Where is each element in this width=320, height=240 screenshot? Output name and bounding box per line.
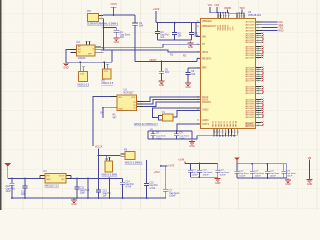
P1 top pins [80, 62, 85, 71]
svg-text:ADIO4/PC: ADIO4/PC [245, 116, 255, 119]
svg-text:4: 4 [235, 131, 236, 133]
U1 ref label [248, 11, 262, 17]
power label VDD2 top [214, 4, 219, 7]
svg-text:RXD: RXD [278, 29, 283, 32]
C4 value label [178, 32, 183, 38]
svg-text:9: 9 [221, 16, 222, 18]
wire bottom rail to gnd [192, 136, 206, 139]
capacitor C23 [281, 164, 286, 178]
svg-text:104: 104 [191, 73, 196, 76]
C20 value label [239, 171, 249, 178]
capacitor C5 [159, 61, 164, 79]
svg-text:GND: GND [215, 182, 221, 185]
svg-text:2: 2 [242, 16, 243, 18]
svg-text:4.7uF: 4.7uF [125, 187, 131, 189]
capacitor C12 [74, 178, 79, 198]
svg-text:VD2: VD2 [214, 4, 219, 7]
C10 value label [6, 186, 16, 193]
svg-text:9: 9 [226, 16, 227, 18]
svg-text:TP: TP [202, 44, 205, 46]
U1 left pin numbers [197, 21, 199, 126]
junction U3 gnd [102, 107, 104, 109]
wire top harness A [210, 12, 229, 13]
capacitor C21 [250, 163, 255, 179]
power flag group2 [234, 158, 239, 164]
power label VCCA [95, 145, 103, 179]
wire gnd bus y62.5 [66, 50, 112, 62]
wire to C1 [104, 26, 117, 28]
svg-text:GND: GND [159, 84, 165, 87]
Y1 link label [134, 123, 158, 126]
wire P3 pin2 down [103, 18, 105, 50]
svg-text:40: 40 [197, 102, 199, 104]
svg-text:TDO: TDO [239, 7, 244, 10]
power label +3V3 right [168, 164, 175, 168]
svg-text:ADIO5/PC: ADIO5/PC [245, 92, 255, 95]
svg-text:100nF: 100nF [239, 176, 246, 178]
power label +3V3 mid [154, 170, 161, 174]
U4 part label [45, 185, 60, 188]
capacitor C19 [215, 164, 220, 178]
U1 bottom pin numbers [215, 131, 239, 133]
U3 bottom net labels [113, 115, 118, 120]
regulator U4 [43, 170, 66, 183]
U3 ref label [124, 89, 135, 95]
U1 top pin names [217, 24, 234, 30]
svg-text:GND: GND [189, 145, 195, 148]
wire down to NRST net [134, 15, 136, 61]
svg-text:VB: VB [308, 156, 312, 160]
wire U3 GND [103, 108, 110, 117]
junction VCCA [98, 155, 100, 157]
svg-text:4: 4 [226, 131, 227, 133]
capacitor C4 [172, 23, 177, 40]
svg-text:4: 4 [220, 131, 221, 133]
svg-text:GND: GND [46, 179, 51, 181]
capacitor C8 [151, 131, 156, 139]
svg-text:43: 43 [197, 124, 199, 126]
wire SSCS [143, 97, 200, 102]
svg-text:100nF: 100nF [203, 175, 210, 177]
U1 bottom pin stubs [214, 129, 237, 133]
U1 top pin numbers [219, 16, 246, 18]
C21 value label [255, 171, 265, 178]
C15 value label [149, 183, 158, 190]
svg-text:TAKT5: TAKT5 [220, 120, 223, 127]
junction NRST/C5 [161, 61, 163, 63]
ground right tie [307, 178, 313, 186]
wire right tie [309, 161, 311, 178]
svg-text:1.8V: 1.8V [80, 74, 85, 76]
U3 right pin stubs [137, 102, 143, 107]
Y1 wires [153, 108, 201, 120]
capacitor C1 [113, 27, 119, 36]
svg-text:VIN: VIN [118, 97, 122, 99]
svg-text:4K7: 4K7 [113, 117, 118, 119]
svg-text:34: 34 [197, 44, 199, 46]
svg-text:100nF: 100nF [169, 196, 176, 198]
svg-text:GND: GND [118, 109, 123, 111]
C12 value label [80, 187, 90, 194]
wire 3v3 right [160, 165, 167, 167]
svg-text:ADIO8/PC: ADIO8/PC [245, 41, 255, 44]
wire U2 pin7 down [101, 51, 104, 53]
capacitor C9 [174, 130, 179, 139]
svg-text:10uF: 10uF [80, 193, 86, 195]
svg-text:33: 33 [197, 36, 199, 38]
svg-text:KB2X1-3.5MM: KB2X1-3.5MM [102, 174, 118, 177]
svg-text:2: 2 [244, 16, 245, 18]
C13 value label [103, 190, 112, 197]
capacitor C18 [197, 163, 202, 179]
svg-text:4: 4 [229, 131, 230, 133]
U2 right pin stubs [96, 47, 102, 52]
crystal Y1 [162, 111, 174, 122]
U1 bottom rail [206, 133, 238, 136]
svg-text:1uF: 1uF [103, 196, 108, 198]
power label VB right [308, 156, 312, 162]
svg-text:+3V3: +3V3 [153, 7, 160, 11]
U1 right pin numbers [257, 22, 259, 127]
junction at VCC5 drop [113, 14, 115, 16]
svg-text:42: 42 [197, 120, 199, 122]
capacitor C15 [144, 170, 149, 198]
svg-text:GND: GND [307, 183, 313, 186]
svg-text:2: 2 [238, 16, 239, 18]
capacitor C6 [185, 71, 190, 82]
wire top harness B [228, 13, 245, 14]
svg-text:100nF: 100nF [270, 176, 277, 178]
svg-text:TAKT9: TAKT9 [232, 120, 235, 127]
svg-text:VBBGEN: VBBGEN [202, 21, 212, 23]
svg-text:+1V8: +1V8 [178, 158, 185, 162]
svg-text:NCP1117: NCP1117 [124, 91, 135, 94]
svg-text:100nF: 100nF [220, 175, 227, 177]
C8 value label [150, 129, 166, 140]
svg-text:VO1: VO1 [131, 97, 136, 99]
U2 part label [78, 57, 86, 60]
IC U3 [117, 95, 138, 112]
svg-text:NRST: NRST [150, 58, 158, 62]
rail top mid [71, 177, 123, 179]
svg-text:KB2X1-3.5: KB2X1-3.5 [78, 84, 90, 87]
C17 value label [192, 170, 202, 177]
P2 top pins [104, 62, 109, 68]
wire VCCA to P5 [99, 155, 121, 157]
svg-text:ADIO2/PC: ADIO2/PC [245, 26, 255, 29]
blue gnd mark below U3 [100, 112, 104, 119]
svg-text:TAKT8: TAKT8 [229, 120, 232, 127]
svg-text:VDD1: VDD1 [202, 52, 209, 54]
P5 pin stubs [120, 154, 124, 157]
U4 left stub [40, 176, 45, 179]
group1 rails [185, 164, 218, 178]
ground left of U2 [63, 62, 69, 70]
P6 link label [102, 174, 118, 177]
svg-text:+3V3: +3V3 [168, 164, 175, 168]
test point P1 [78, 71, 88, 82]
svg-text:35: 35 [197, 52, 199, 54]
svg-text:NC: NC [61, 179, 65, 181]
svg-text:GND2: GND2 [202, 110, 209, 112]
capacitor C17 [188, 164, 193, 178]
svg-text:104: 104 [139, 25, 144, 28]
svg-text:4: 4 [232, 131, 233, 133]
svg-text:VB1: VB1 [202, 36, 207, 38]
C18 value label [203, 170, 213, 177]
connector P5 [124, 149, 136, 160]
U4 pin names [46, 175, 65, 181]
wire U2 pin1 to gnd [66, 50, 71, 62]
svg-text:GND: GND [188, 46, 194, 49]
svg-text:ADIO4/PC: ADIO4/PC [245, 56, 255, 59]
junction rail [76, 178, 110, 180]
capacitor C17b [163, 189, 168, 198]
svg-text:GND: GND [71, 203, 77, 206]
svg-text:TAKT3: TAKT3 [214, 120, 217, 127]
svg-text:100nF: 100nF [192, 175, 199, 177]
power flag VIN [5, 163, 11, 178]
svg-text:+3V3: +3V3 [154, 170, 161, 174]
U1 left pin names [202, 21, 217, 126]
svg-text:ADIO5/PC: ADIO5/PC [245, 121, 255, 124]
svg-text:15pF: 15pF [180, 138, 186, 140]
svg-text:GND: GND [114, 41, 120, 44]
U1 right wires with net labels [256, 21, 284, 33]
svg-text:ADIO1/PC: ADIO1/PC [245, 24, 255, 27]
svg-text:KB2X1-3.5MM-2: KB2X1-3.5MM-2 [125, 162, 143, 165]
junction gnd rail [11, 197, 147, 199]
svg-text:9: 9 [224, 16, 225, 18]
U3 left pin stubs [110, 97, 116, 108]
svg-text:ADIO0/PC: ADIO0/PC [245, 21, 255, 24]
P1 link label [78, 84, 90, 87]
svg-text:JN5148-001: JN5148-001 [248, 14, 262, 17]
junction C4 [191, 22, 193, 24]
svg-text:ADIO1/PC: ADIO1/PC [245, 80, 255, 83]
wire U2 SDA to U1 [101, 44, 200, 47]
U1 powergnd pin names [245, 123, 255, 128]
wire to U1 pin [195, 22, 200, 37]
svg-text:4: 4 [238, 131, 239, 133]
svg-text:TAKT2: TAKT2 [212, 120, 215, 127]
svg-text:4: 4 [218, 131, 219, 133]
connector P6 [105, 158, 114, 173]
U1 right nc pins [256, 33, 263, 126]
wire U3 VIN [93, 97, 110, 147]
svg-text:KB2X1-3.5: KB2X1-3.5 [102, 82, 114, 85]
connector P3 [87, 9, 99, 22]
svg-text:36: 36 [197, 58, 199, 60]
svg-text:9: 9 [229, 16, 230, 18]
P2 link label [102, 79, 114, 85]
wire cap leg a [87, 178, 89, 198]
svg-text:GA: GA [100, 112, 104, 115]
svg-text:GND: GND [285, 183, 291, 186]
ground below rail [71, 199, 77, 207]
C19 value label [220, 170, 230, 177]
P3 pin stubs [99, 14, 103, 19]
rail top left [8, 177, 45, 179]
P3 footprint label [87, 22, 119, 25]
svg-text:TAKT4: TAKT4 [217, 120, 220, 127]
svg-text:ABS07-32.768KHZ-9-T: ABS07-32.768KHZ-9-T [134, 123, 158, 126]
svg-text:VD1: VD1 [208, 4, 213, 7]
svg-text:4: 4 [215, 131, 216, 133]
C11 value label [21, 192, 26, 197]
svg-text:TAKT6: TAKT6 [223, 120, 226, 127]
capacitor C13 [96, 178, 101, 198]
power label VDDB [224, 7, 231, 13]
gnd rail right end [165, 197, 167, 199]
gnd wire under C3 C4 C7 [158, 39, 192, 41]
C9 value label [180, 133, 190, 140]
svg-text:100nF: 100nF [255, 176, 262, 178]
capacitor C2 [132, 23, 138, 25]
U2 top stubs [85, 41, 91, 45]
capacitor C14 [120, 178, 125, 198]
svg-text:GND: GND [63, 66, 69, 69]
svg-text:RESETN: RESETN [202, 58, 212, 60]
wire +3V3 to U1 [156, 22, 200, 24]
series resistor labels [170, 54, 187, 58]
power label TDO [239, 7, 244, 13]
P5 link label [125, 162, 143, 165]
capacitor C7 [189, 23, 194, 40]
svg-text:4: 4 [223, 131, 224, 133]
svg-text:REF: REF [202, 68, 207, 70]
svg-text:4.7uF: 4.7uF [149, 188, 155, 190]
U2 pin names [78, 45, 95, 55]
svg-text:VIN: VIN [46, 175, 50, 177]
svg-text:VCC5: VCC5 [110, 3, 117, 6]
U1 top pin stubs [218, 13, 244, 18]
U3 pin names [118, 97, 136, 111]
wire rail to U1 takt [176, 124, 200, 132]
test point P2 [102, 68, 112, 79]
ground below C1 [113, 37, 119, 45]
svg-text:9: 9 [219, 16, 220, 18]
wire cap leg b [108, 178, 110, 198]
C7 value label [194, 32, 199, 38]
ground xtal ladder [189, 140, 195, 148]
svg-text:U2: U2 [76, 40, 80, 44]
svg-text:15pF: 15pF [156, 138, 162, 140]
svg-text:24C02: 24C02 [78, 57, 86, 60]
wire U2 SCL to U1 [101, 50, 200, 52]
sheet left border [0, 0, 1, 210]
svg-text:AMS1117-3.3: AMS1117-3.3 [45, 185, 60, 188]
wire group2 right [286, 164, 288, 178]
svg-text:TAKT1: TAKT1 [202, 123, 210, 126]
ground group1 [215, 177, 221, 185]
svg-text:104: 104 [165, 71, 170, 74]
svg-text:VBBGENOUT: VBBGENOUT [202, 26, 217, 28]
svg-text:ADIO3/PC: ADIO3/PC [245, 29, 255, 32]
power flag VCC5V [110, 3, 117, 15]
U2 left pin stubs [71, 50, 77, 53]
ground below C5 [159, 80, 165, 88]
svg-text:1uF: 1uF [160, 37, 165, 39]
svg-text:32: 32 [197, 26, 199, 28]
U1 right pin names [245, 21, 255, 127]
capacitor C11 [22, 178, 27, 199]
svg-text:VDDB: VDDB [224, 7, 231, 10]
C5 value label [165, 68, 170, 74]
svg-text:2: 2 [240, 16, 241, 18]
gnd rail bottom [12, 197, 166, 199]
U4 right stub [67, 176, 72, 179]
group2 rails [237, 164, 287, 178]
C23 value label [286, 171, 296, 178]
wire REF pin to C6 [188, 68, 200, 71]
svg-text:VCCA: VCCA [95, 145, 103, 149]
svg-text:TAKT7: TAKT7 [226, 120, 229, 127]
capacitor C22 [265, 163, 270, 179]
C2 value label [139, 22, 144, 28]
C1 value label [120, 31, 131, 39]
svg-text:XTO: XTO [233, 26, 235, 31]
ground below C7 [188, 42, 194, 50]
C17b value label [169, 191, 180, 198]
ground group2 [285, 179, 291, 187]
wire P5 down [146, 160, 148, 170]
capacitor C3 [155, 23, 160, 40]
junction C3 [174, 22, 176, 24]
wire SSDATA [143, 102, 200, 107]
capacitor C20 [235, 164, 240, 178]
ground below C6 [185, 82, 191, 90]
C3 value label [160, 31, 169, 39]
svg-text:10uF: 10uF [6, 191, 12, 193]
svg-text:VOUT: VOUT [59, 175, 66, 177]
svg-text:31: 31 [197, 21, 199, 23]
svg-text:3.3V: 3.3V [104, 71, 109, 73]
U1 bottom pin names [212, 120, 238, 127]
junction gnd bus [79, 61, 105, 63]
wire P3 to +5V rail [103, 14, 135, 16]
svg-text:41: 41 [197, 109, 199, 111]
IC U1 body [200, 18, 256, 129]
wire SSCK [143, 100, 200, 105]
P6 pin stubs [106, 155, 111, 161]
svg-text:TAKTA: TAKTA [235, 120, 238, 127]
svg-text:GND: GND [185, 86, 191, 89]
svg-text:ADIO6/PC: ADIO6/PC [245, 124, 255, 127]
svg-text:WP: WP [88, 54, 92, 56]
C6 value label [191, 70, 196, 76]
svg-text:P3: P3 [87, 9, 91, 13]
C14 value label [125, 181, 134, 188]
capacitor C10 [9, 178, 14, 199]
svg-text:37: 37 [197, 67, 199, 69]
wire NRST [135, 59, 200, 62]
C22 value label [270, 171, 280, 178]
power label VDD1 top [208, 4, 217, 13]
IC U2 [76, 40, 96, 56]
power label +3V3 top [153, 7, 160, 22]
svg-text:VDDA: VDDA [219, 24, 222, 30]
svg-text:GND3: GND3 [202, 120, 209, 122]
xtal cap rail [148, 131, 192, 139]
svg-text:SSDATA: SSDATA [202, 101, 211, 104]
svg-text:SCREWTERMINAL-3.5MM-2: SCREWTERMINAL-3.5MM-2 [87, 22, 119, 25]
power label +1V8 [178, 158, 185, 164]
net label NRST [150, 58, 158, 62]
wire to C17 [161, 166, 166, 189]
